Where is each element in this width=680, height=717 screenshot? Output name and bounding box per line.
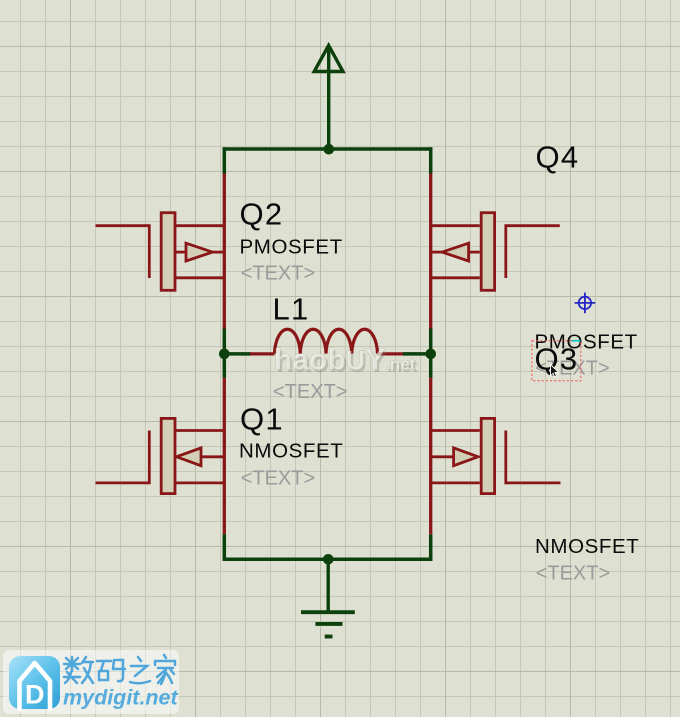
transistor Q2 (PMOSFET top-left) xyxy=(96,213,225,291)
wire mid left (green) xyxy=(224,352,251,356)
svg-text:<TEXT>: <TEXT> xyxy=(273,381,347,403)
wire left trunk lower (red) xyxy=(223,378,226,535)
svg-text:NMOSFET: NMOSFET xyxy=(535,535,639,558)
wire left trunk upper (red) xyxy=(223,174,226,329)
watermark site name (Chinese) xyxy=(64,655,175,684)
watermark haobuy.net (center) xyxy=(274,343,418,379)
svg-text:L1: L1 xyxy=(273,292,310,327)
wire right trunk mid (green) xyxy=(429,329,433,378)
svg-text:haobUY.net: haobUY.net xyxy=(274,343,416,376)
svg-text:PMOSFET: PMOSFET xyxy=(240,235,343,258)
char jia xyxy=(155,655,175,684)
char shu xyxy=(64,657,93,683)
selection handle tick (cyan) xyxy=(572,340,581,342)
svg-text:D: D xyxy=(25,680,45,710)
svg-text:<TEXT>: <TEXT> xyxy=(536,563,610,585)
char ma xyxy=(97,660,125,681)
transistor Q3 (NMOSFET bottom-right) xyxy=(431,418,561,493)
wire right trunk bottom stub xyxy=(429,534,433,561)
wire top rail xyxy=(223,147,433,151)
wire left trunk top stub xyxy=(223,147,227,173)
wire right trunk upper (red) xyxy=(429,174,432,329)
wire bottom rail xyxy=(223,558,433,562)
transistor Q4 (PMOSFET top-right) xyxy=(431,213,560,291)
wire left trunk mid (green) xyxy=(223,329,227,378)
wire right trunk lower (red) xyxy=(429,378,432,535)
svg-text:<TEXT>: <TEXT> xyxy=(241,467,315,489)
mouse cursor xyxy=(551,365,559,377)
junction top rail xyxy=(324,144,335,155)
wire left trunk bottom stub xyxy=(223,534,227,561)
origin marker (blue crosshair) xyxy=(575,293,596,314)
svg-text:mydigit.net: mydigit.net xyxy=(63,686,179,710)
selection box around Q3 label xyxy=(532,341,581,381)
power symbol VCC xyxy=(314,45,343,149)
svg-text:<TEXT>: <TEXT> xyxy=(241,263,315,285)
wire right trunk top stub xyxy=(429,147,433,173)
svg-text:NMOSFET: NMOSFET xyxy=(239,439,343,462)
junction mid right node xyxy=(425,349,436,360)
inductor L1 xyxy=(250,329,403,354)
svg-text:Q2: Q2 xyxy=(240,197,284,232)
transistor Q1 (NMOSFET bottom-left) xyxy=(96,418,225,493)
watermark mydigit.net logo (bottom-left) xyxy=(3,650,179,714)
wire mid right (green) xyxy=(403,352,431,356)
char zhi xyxy=(130,657,150,683)
svg-text:Q1: Q1 xyxy=(240,402,284,437)
svg-text:Q4: Q4 xyxy=(536,139,580,174)
junction bottom rail xyxy=(323,554,334,565)
ground xyxy=(301,559,355,636)
junction mid left node xyxy=(219,349,230,360)
